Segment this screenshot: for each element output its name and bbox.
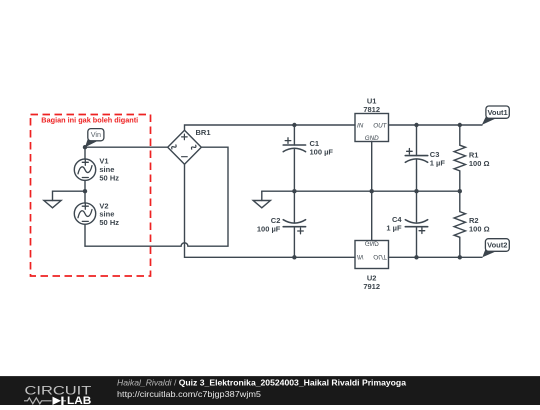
svg-text:BR1: BR1 — [196, 128, 211, 137]
svg-text:1 µF: 1 µF — [430, 158, 446, 167]
svg-text:GND: GND — [365, 135, 379, 142]
svg-text:50 Hz: 50 Hz — [99, 218, 119, 227]
svg-text:100 Ω: 100 Ω — [469, 225, 490, 234]
svg-text:Vout1: Vout1 — [487, 108, 507, 117]
svg-text:Vout2: Vout2 — [487, 241, 507, 250]
svg-text:IN: IN — [357, 123, 364, 130]
svg-text:http://circuitlab.com/c7bjgp38: http://circuitlab.com/c7bjgp387wjm5 — [117, 390, 261, 399]
svg-text:Haikal_Rivaldi / Quiz 3_Elektr: Haikal_Rivaldi / Quiz 3_Elektronika_2052… — [117, 377, 406, 387]
svg-text:OUT: OUT — [373, 123, 387, 130]
svg-text:IN: IN — [357, 253, 364, 260]
svg-text:7812: 7812 — [363, 105, 380, 114]
svg-text:OUT: OUT — [373, 253, 387, 260]
svg-text:50 Hz: 50 Hz — [99, 173, 119, 182]
svg-text:100 µF: 100 µF — [310, 147, 334, 156]
svg-text:100 Ω: 100 Ω — [469, 159, 490, 168]
svg-text:100 µF: 100 µF — [257, 225, 281, 234]
svg-text:Bagian ini gak boleh diganti: Bagian ini gak boleh diganti — [41, 116, 138, 125]
svg-text:7912: 7912 — [363, 282, 380, 291]
svg-text:LAB: LAB — [67, 395, 91, 405]
svg-text:Vin: Vin — [91, 130, 101, 139]
svg-text:1 µF: 1 µF — [386, 223, 402, 232]
svg-text:GND: GND — [365, 239, 379, 246]
